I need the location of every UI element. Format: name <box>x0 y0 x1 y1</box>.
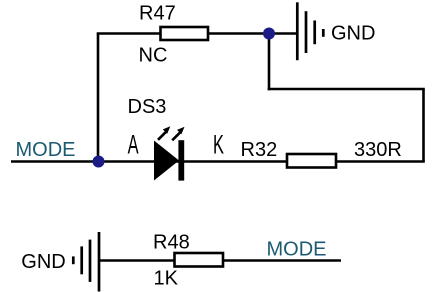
LED DS3 triangle (anode) <box>154 141 179 181</box>
wire: right vertical down to R32 net <box>422 89 425 162</box>
svg-text:A: A <box>128 129 139 159</box>
ground GND (top), rotated bars <box>297 2 323 60</box>
svg-text:GND: GND <box>21 251 65 273</box>
junction node (top, R47/GND) <box>263 28 275 40</box>
LED DS3 emission arrow 1 <box>158 126 170 140</box>
resistor R47 body <box>161 27 209 40</box>
resistor R32 body <box>287 154 336 168</box>
svg-text:K: K <box>213 129 224 159</box>
svg-text:DS3: DS3 <box>128 96 167 118</box>
svg-text:R47: R47 <box>139 3 176 25</box>
svg-text:NC: NC <box>139 44 168 66</box>
svg-text:MODE: MODE <box>267 239 327 261</box>
junction node (left, MODE) <box>93 156 105 168</box>
wire: top horizontal right of R47 to GND <box>206 32 297 35</box>
svg-text:1K: 1K <box>154 267 179 289</box>
svg-text:R32: R32 <box>241 139 278 161</box>
LED DS3 cathode bar <box>178 140 184 180</box>
svg-text:MODE: MODE <box>16 139 76 161</box>
wire: bottom horizontal GND to MODE <box>99 259 341 262</box>
svg-text:330R: 330R <box>354 139 402 161</box>
wire: middle horizontal MODE to R32 to right vertical <box>11 160 425 163</box>
wire: vertical drop from top junction <box>268 34 271 91</box>
wire: top-left vertical from R47 wire down to MODE node <box>97 34 100 162</box>
svg-text:R48: R48 <box>153 231 190 253</box>
wire: top horizontal left of R47 <box>97 32 162 35</box>
wire: horizontal over to right side <box>268 88 425 91</box>
LED DS3 emission arrow 2 <box>172 127 184 141</box>
resistor R48 body <box>175 253 224 267</box>
svg-text:GND: GND <box>331 22 375 44</box>
ground GND (bottom), mirrored bars <box>73 232 99 292</box>
